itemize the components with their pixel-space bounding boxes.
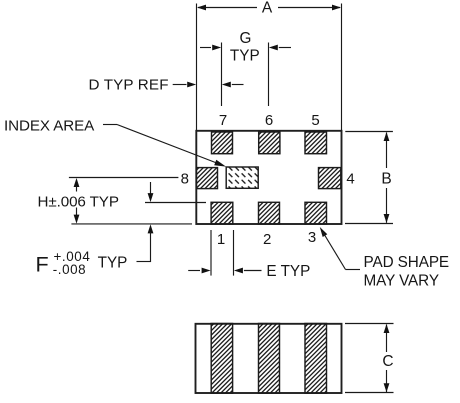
extension line left edge up to dim A (196, 4, 198, 131)
arrow A left (197, 5, 206, 11)
dim B line bottom segment (386, 188, 388, 223)
extension line right edge up to dim A (341, 4, 343, 131)
svg-text:2: 2 (263, 231, 271, 248)
svg-text:1: 1 (217, 231, 225, 248)
pad 1 (211, 202, 233, 224)
arrow C up (384, 324, 390, 333)
dim H bottom arrow (76, 208, 78, 216)
pad 4 (319, 168, 341, 189)
svg-text:-.008: -.008 (53, 262, 87, 277)
dim H top arrow (74, 178, 80, 187)
pad 5 (305, 132, 327, 154)
dim E left arrowhead (202, 268, 211, 274)
svg-text:PAD SHAPE: PAD SHAPE (364, 254, 450, 271)
extension line B bottom (345, 223, 393, 225)
pad 3 (305, 202, 327, 224)
svg-text:7: 7 (219, 112, 227, 129)
arrow B up (384, 132, 390, 141)
svg-text:H±.006 TYP: H±.006 TYP (38, 193, 119, 210)
bottom view outline (196, 324, 342, 393)
svg-text:TYP: TYP (230, 47, 260, 64)
arrow C down (384, 383, 390, 392)
extension line F top (pad top edge) (145, 202, 206, 204)
extension line pad8 centerline (69, 177, 178, 179)
arrow A right (332, 5, 341, 11)
svg-text:F: F (36, 252, 49, 276)
svg-text:3: 3 (308, 229, 316, 246)
dim G left arrow tail (200, 47, 211, 49)
dim C line top segment (386, 325, 388, 353)
dim C line bottom segment (386, 370, 388, 392)
svg-text:D TYP REF: D TYP REF (89, 77, 169, 94)
index area leader diagonal (117, 125, 218, 164)
svg-text:4: 4 (346, 171, 354, 188)
dim G left arrowhead (212, 45, 221, 51)
dim E right arrow tail (244, 270, 262, 272)
dim G right arrowhead (269, 45, 278, 51)
dim F leader elbow (137, 261, 152, 263)
dim F bottom arrow shaft (150, 232, 152, 262)
svg-text:G: G (240, 30, 252, 47)
dim G right arrow tail (279, 47, 291, 49)
extension line B top (345, 131, 393, 133)
dim D left arrowhead (187, 82, 196, 88)
dim D leader dash (173, 84, 187, 86)
dimension A line left segment (198, 7, 257, 9)
dimension A line right segment (278, 7, 340, 9)
extension line pad6 centerline (268, 43, 270, 107)
pad shape leader arrowhead (320, 227, 328, 237)
extension line C bottom (345, 392, 394, 394)
pad 2 (259, 202, 280, 224)
arrow B down (384, 214, 390, 223)
svg-text:MAY VARY: MAY VARY (364, 272, 439, 289)
dim E left arrow tail (188, 270, 200, 272)
dim D right arrowhead (222, 82, 231, 88)
svg-text:A: A (262, 0, 273, 17)
extension line bottom edge left (71, 223, 192, 225)
extension line pad1 right (233, 230, 235, 276)
top view package outline (196, 131, 341, 224)
pad 8 (196, 168, 217, 189)
bottom view bar 1 (211, 324, 232, 394)
svg-text:E TYP: E TYP (266, 263, 310, 280)
dim F bottom arrowhead up (148, 224, 154, 233)
svg-text:TYP: TYP (98, 254, 128, 271)
index area pad (226, 167, 258, 188)
dim B line top segment (386, 133, 388, 169)
svg-text:B: B (381, 171, 391, 188)
bottom view bar 2 (259, 324, 280, 394)
dim E right arrowhead (234, 268, 243, 274)
svg-text:5: 5 (311, 112, 319, 129)
index area leader horizontal (103, 124, 117, 126)
svg-text:INDEX AREA: INDEX AREA (4, 117, 95, 134)
extension line pad7 centerline (221, 43, 223, 107)
pad 7 (212, 132, 233, 154)
dim F top arrow shaft (150, 182, 152, 195)
pad shape leader horizontal (346, 269, 361, 271)
bottom view bar 3 (305, 324, 327, 394)
svg-text:8: 8 (181, 171, 189, 188)
extension line pad1 left (210, 230, 212, 276)
extension line C top (345, 323, 394, 325)
pad 6 (259, 132, 280, 154)
svg-text:6: 6 (265, 112, 273, 129)
dim D right arrow tail (232, 84, 244, 86)
pad shape leader diagonal (323, 232, 346, 270)
index area arrowhead (214, 160, 226, 167)
dim F top arrowhead down (148, 193, 154, 202)
svg-text:C: C (382, 353, 393, 370)
